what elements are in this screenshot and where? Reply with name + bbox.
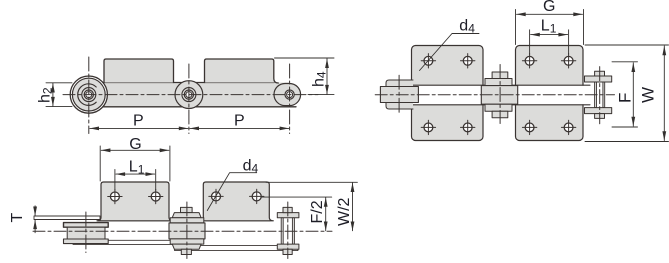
outer plate top bar (T bar)	[34, 216, 100, 220]
hole H3 right plate	[209, 189, 223, 203]
station L outer plate bar bottom	[386, 103, 413, 110]
station 3 link bars vertical	[281, 218, 283, 244]
station 2 inner bar cap top	[170, 218, 204, 223]
W extension lines	[585, 44, 669, 46]
vertical centerline station2	[186, 202, 188, 259]
band top edge	[100, 82, 274, 84]
attachment plate A2 (right)	[199, 182, 273, 221]
svg-text:h2: h2	[37, 87, 55, 103]
roller R1 (large flanged roller) outer flange	[70, 76, 107, 113]
attachment plate right (4 holes)	[516, 46, 584, 141]
roller R2 (middle roller)	[175, 81, 203, 109]
station R bottom cap bar	[585, 108, 612, 114]
band top edge view3	[412, 84, 591, 86]
F/2 dimension line	[325, 198, 327, 231]
station 3 top cap bar	[277, 213, 299, 218]
vertical centerline pin1	[88, 57, 90, 134]
station M pin head bottom	[492, 111, 508, 118]
hole H9 right plate top-left	[522, 54, 536, 68]
svg-text:F: F	[616, 93, 635, 103]
F dimension line	[632, 63, 634, 126]
hole H5 left plate top-left	[421, 54, 435, 68]
station 2 pin head top	[181, 207, 193, 212]
station 3 bottom cap bar	[277, 244, 299, 249]
W dimension line	[663, 46, 665, 141]
vertical centerline station3	[287, 202, 289, 259]
G dimension line view3	[517, 13, 583, 15]
station 1 roller barrel	[67, 227, 105, 239]
station 3 pin head top	[283, 207, 292, 212]
bottom outer plate bar	[175, 245, 298, 250]
band bottom edge	[75, 106, 296, 108]
vertical centerline station L	[398, 75, 400, 114]
chain white band	[412, 86, 612, 105]
station 2 pin head bottom	[181, 249, 191, 254]
bush B2	[182, 88, 196, 102]
T dimension arrows	[34, 206, 36, 216]
bottom inner plate bar	[73, 240, 181, 244]
hole H1 left plate	[108, 189, 122, 203]
G dimension line view2	[101, 149, 169, 151]
d4 leader line view3	[420, 34, 480, 71]
hole H12 right plate bottom-right	[561, 120, 575, 134]
station 2 outer bar cap top	[172, 213, 201, 218]
P dimension line 1	[90, 127, 188, 129]
F extension lines	[612, 61, 638, 63]
P dimension line 2	[190, 127, 289, 129]
station R pin head bottom	[595, 114, 605, 119]
hole H11 right plate bottom-left	[522, 120, 536, 134]
vertical centerline pin2	[188, 64, 190, 134]
h4 extension line top	[275, 57, 335, 59]
h2 dimension line	[52, 83, 54, 106]
h4 dimension line	[326, 59, 328, 94]
hole H2 left plate	[149, 189, 163, 203]
attachment plate left (4 holes)	[412, 46, 484, 141]
outer plate right end cap	[274, 84, 301, 106]
vertical centerline station1	[85, 212, 87, 253]
hole H10 right plate top-right	[561, 54, 575, 68]
pin P1	[84, 90, 93, 99]
svg-text:F/2: F/2	[309, 200, 326, 223]
link plate band	[78, 83, 290, 107]
bush B1	[82, 88, 96, 102]
svg-text:W: W	[639, 87, 658, 103]
svg-text:L1: L1	[129, 159, 145, 177]
station 2 roller	[169, 223, 205, 239]
hole H8 left plate bottom-right	[461, 120, 475, 134]
horizontal centerline view1	[63, 94, 318, 96]
horizontal centerline view2	[33, 230, 332, 232]
pin P2	[184, 90, 193, 99]
station M cap bar bottom	[485, 104, 512, 111]
attachment plate A1 (left)	[97, 182, 173, 221]
station M cap bar top	[485, 79, 512, 86]
station L outer plate bar top	[386, 80, 413, 87]
attachment plate raised section 1	[104, 59, 174, 83]
G extension lines view2	[99, 146, 101, 181]
station 2 inner bar cap bottom	[170, 239, 204, 244]
vertical centerline station M	[499, 65, 501, 124]
roller R1 inner flange circle	[72, 78, 105, 111]
d4 leader line view2	[207, 173, 256, 211]
G extension lines view3	[515, 10, 517, 45]
F/2 extension line	[261, 196, 332, 198]
svg-text:G: G	[129, 136, 141, 153]
vertical centerline station R	[599, 67, 601, 124]
svg-text:W/2: W/2	[336, 197, 353, 226]
station L roller	[380, 87, 418, 103]
W/2 extension line	[266, 181, 357, 183]
L1 extension lines view2	[114, 170, 116, 191]
svg-text:G: G	[543, 0, 555, 15]
W/2 dimension line	[352, 183, 354, 231]
svg-text:L1: L1	[541, 18, 557, 36]
horizontal centerline view3	[375, 94, 614, 96]
L1 dimension line view2	[116, 173, 155, 175]
h4 extension line bottom	[308, 94, 334, 96]
svg-text:h4: h4	[311, 71, 329, 87]
band bottom edge view3	[412, 104, 591, 106]
svg-text:d4: d4	[459, 18, 475, 36]
hole H4 right plate	[250, 189, 264, 203]
inner plate end cap arc at pin 1	[78, 84, 96, 106]
h2 extension lines	[46, 82, 72, 84]
svg-text:P: P	[234, 113, 245, 130]
station 2 outer bar cap bottom	[172, 244, 201, 249]
svg-text:P: P	[133, 113, 144, 130]
station R pin head top	[595, 71, 605, 76]
attachment plate flat-leg edge line	[98, 220, 270, 222]
station 1 flange bottom bar	[64, 239, 109, 244]
station 1 flange top bar	[64, 223, 109, 228]
station M roller	[481, 86, 517, 105]
svg-text:T: T	[9, 213, 26, 223]
station M pin head top	[492, 72, 508, 79]
hole H7 left plate bottom-left	[421, 120, 435, 134]
station 3 pin head bottom	[283, 249, 292, 254]
pin P3	[285, 90, 294, 99]
L1 dimension line view3	[531, 34, 568, 36]
attachment plate raised section 2	[205, 59, 281, 83]
vertical centerline pin3	[289, 64, 291, 134]
L1 extension lines view3	[529, 30, 531, 54]
hole H6 left plate top-right	[461, 54, 475, 68]
station R link bars vertical	[595, 82, 597, 108]
station R top cap bar	[585, 76, 612, 82]
